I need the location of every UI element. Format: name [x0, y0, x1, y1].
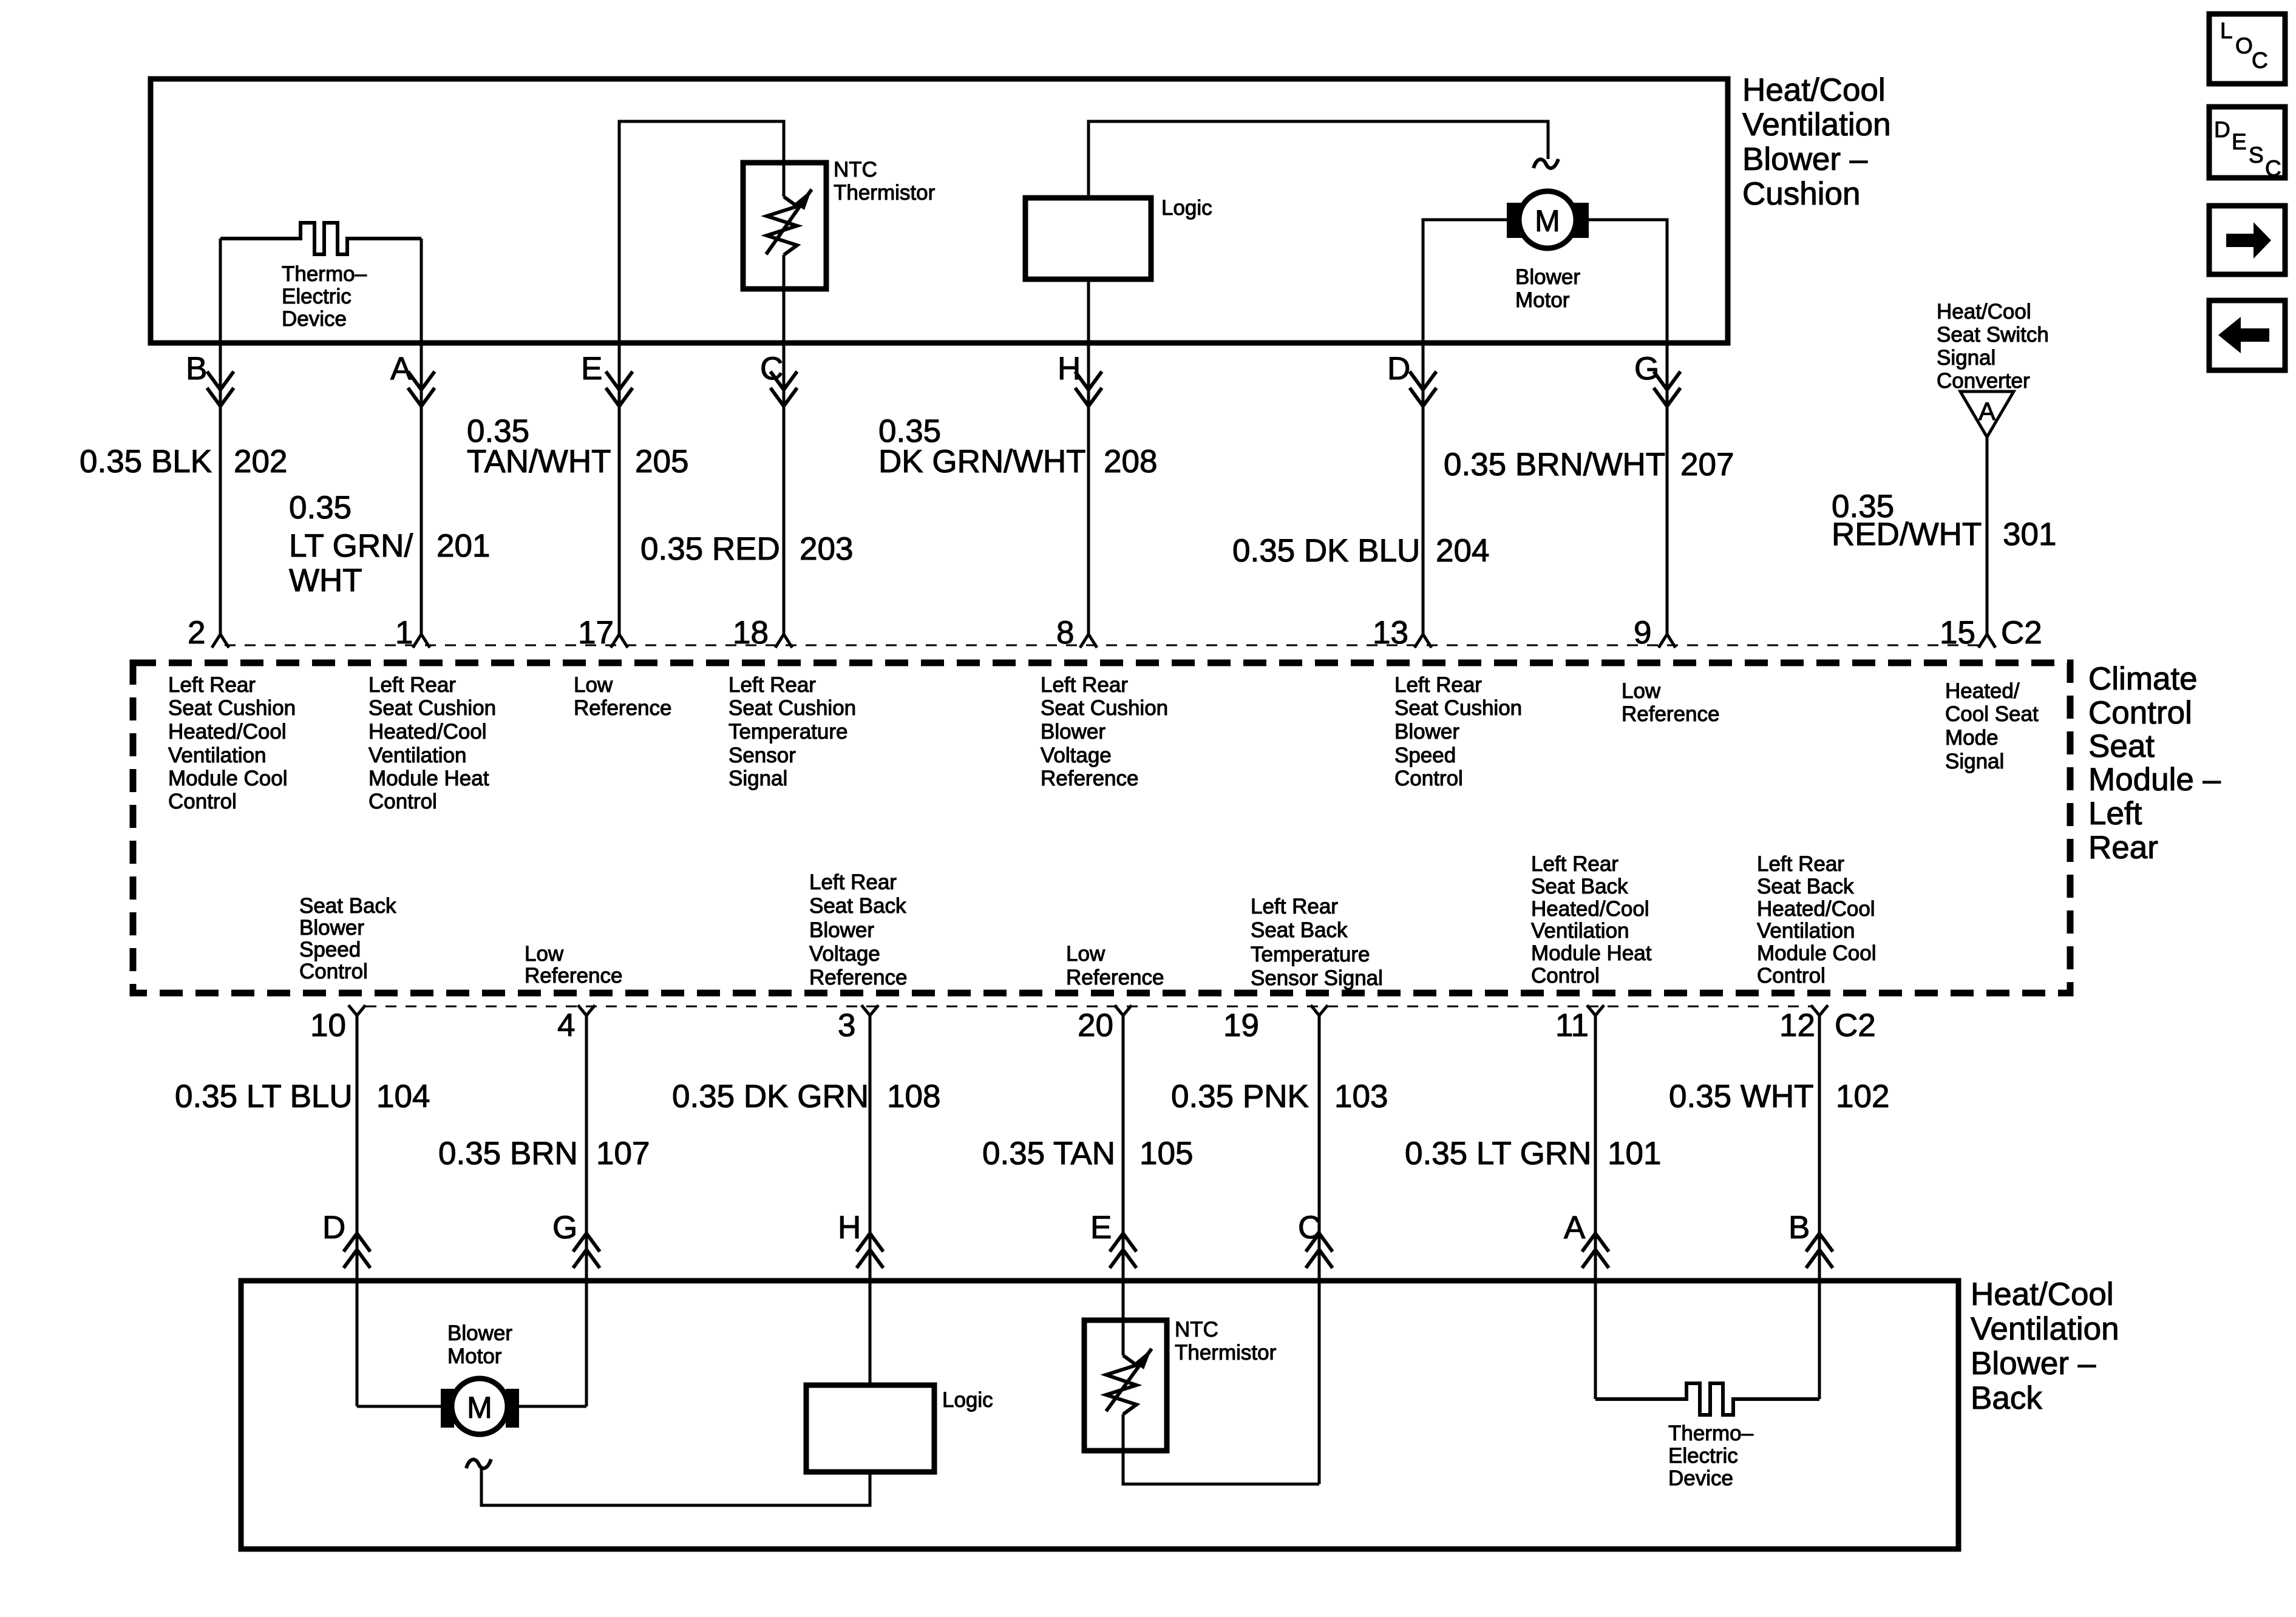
- svg-text:C: C: [1298, 1210, 1321, 1246]
- svg-text:G: G: [552, 1210, 577, 1246]
- svg-text:203: 203: [800, 531, 853, 567]
- svg-text:20: 20: [1078, 1008, 1113, 1043]
- wire 108 (pin 3 to H): [869, 1015, 872, 1385]
- svg-text:A: A: [1978, 397, 1995, 425]
- svg-text:D: D: [2214, 117, 2230, 142]
- logic module (back) box: [806, 1385, 934, 1472]
- arrow chevrons on wire D: [1410, 371, 1436, 390]
- svg-text:NTC: NTC: [1175, 1318, 1218, 1341]
- svg-text:D: D: [322, 1210, 345, 1246]
- svg-text:Ventilation: Ventilation: [168, 744, 267, 767]
- svg-text:Signal: Signal: [1945, 750, 2004, 773]
- wire E lead / low reference run to NTC thermistor: [619, 121, 784, 634]
- svg-text:10: 10: [310, 1008, 346, 1043]
- svg-text:Thermistor: Thermistor: [1175, 1341, 1277, 1364]
- svg-text:Thermo–: Thermo–: [1668, 1422, 1754, 1445]
- wire H lead from logic (208): [1087, 279, 1090, 634]
- svg-text:Low: Low: [1622, 679, 1661, 703]
- svg-text:Signal: Signal: [729, 767, 787, 790]
- svg-text:Control: Control: [2088, 695, 2192, 731]
- svg-text:108: 108: [887, 1079, 940, 1114]
- svg-text:Heated/Cool: Heated/Cool: [1531, 897, 1649, 921]
- svg-text:Device: Device: [1668, 1466, 1733, 1490]
- svg-text:Electric: Electric: [282, 285, 352, 308]
- svg-text:DK GRN/WHT: DK GRN/WHT: [878, 444, 1086, 480]
- svg-text:Motor: Motor: [1515, 288, 1570, 312]
- svg-text:Ventilation: Ventilation: [1742, 107, 1891, 143]
- svg-text:Module Heat: Module Heat: [1531, 941, 1652, 965]
- svg-text:Blower: Blower: [1041, 720, 1106, 744]
- svg-text:Signal: Signal: [1937, 346, 1995, 370]
- svg-text:E: E: [1090, 1210, 1112, 1246]
- svg-text:Sensor: Sensor: [729, 744, 796, 767]
- svg-text:Converter: Converter: [1937, 369, 2030, 393]
- arrow chevrons on wire H: [1075, 371, 1102, 390]
- wire B lead inside box (202): [219, 239, 222, 634]
- svg-text:Back: Back: [1971, 1380, 2042, 1416]
- svg-text:E: E: [2232, 129, 2247, 154]
- arrow chevrons on wire B (bottom): [1806, 1233, 1833, 1252]
- svg-text:Heat/Cool: Heat/Cool: [1937, 300, 2031, 324]
- svg-text:Ventilation: Ventilation: [1531, 919, 1629, 943]
- svg-text:0.35 LT GRN: 0.35 LT GRN: [1405, 1136, 1591, 1171]
- svg-text:Reference: Reference: [525, 964, 622, 988]
- svg-text:RED/WHT: RED/WHT: [1832, 517, 1982, 552]
- NTC thermistor (back) element: [1106, 1355, 1136, 1414]
- svg-text:Temperature: Temperature: [1251, 943, 1370, 966]
- svg-text:Heat/Cool: Heat/Cool: [1742, 72, 1886, 108]
- svg-text:Seat Back: Seat Back: [1757, 875, 1854, 898]
- svg-text:Reference: Reference: [1622, 702, 1719, 726]
- svg-text:Blower: Blower: [299, 916, 364, 940]
- wire motor right lead (back): [519, 1405, 586, 1408]
- svg-text:207: 207: [1680, 447, 1734, 483]
- svg-text:Blower: Blower: [1515, 265, 1580, 289]
- svg-text:Left Rear: Left Rear: [1041, 673, 1128, 697]
- svg-text:Left: Left: [2088, 796, 2142, 832]
- svg-text:H: H: [1058, 351, 1081, 387]
- NTC thermistor (cushion) box: [743, 163, 826, 289]
- svg-text:2: 2: [188, 615, 205, 651]
- svg-text:Blower: Blower: [447, 1321, 512, 1345]
- svg-text:Speed: Speed: [299, 938, 361, 961]
- svg-text:105: 105: [1140, 1136, 1193, 1171]
- svg-text:Heated/Cool: Heated/Cool: [369, 720, 487, 744]
- wire motor left lead to D (204): [1423, 220, 1507, 634]
- svg-text:Control: Control: [1394, 767, 1463, 790]
- svg-text:Logic: Logic: [942, 1388, 993, 1412]
- top enclosure box: Heat/Cool Ventilation Blower - Cushion: [151, 79, 1728, 343]
- svg-text:Rear: Rear: [2088, 830, 2158, 866]
- svg-text:201: 201: [436, 528, 490, 564]
- signal converter triangle symbol: [1960, 392, 2014, 437]
- wire A lead inside box (201): [420, 239, 423, 634]
- bottom enclosure box: Heat/Cool Ventilation Blower - Back: [241, 1281, 1958, 1549]
- arrow chevrons on wire G: [1654, 371, 1680, 390]
- LOC navigation icon box: [2209, 14, 2285, 84]
- svg-text:Electric: Electric: [1668, 1444, 1738, 1468]
- svg-text:103: 103: [1334, 1079, 1388, 1114]
- svg-text:C: C: [2265, 156, 2281, 181]
- left arrow glyph: [2218, 317, 2269, 353]
- NTC thermistor (back) box: [1084, 1320, 1167, 1451]
- svg-text:B: B: [186, 351, 207, 387]
- thin connector dashed line (bottom): [365, 1006, 1812, 1008]
- DESC navigation icon box: [2209, 107, 2285, 178]
- svg-text:Ventilation: Ventilation: [369, 744, 467, 767]
- svg-text:11: 11: [1555, 1008, 1589, 1043]
- thermo-electric device (cushion): [220, 223, 421, 254]
- svg-text:Seat Cushion: Seat Cushion: [168, 696, 296, 720]
- svg-text:Low: Low: [574, 673, 613, 697]
- svg-text:Cool Seat: Cool Seat: [1945, 702, 2039, 726]
- svg-text:Control: Control: [1531, 964, 1600, 988]
- svg-text:Seat Cushion: Seat Cushion: [369, 696, 496, 720]
- blower motor (cushion) circle: [1519, 191, 1576, 248]
- arrow chevrons on wire D (bottom): [344, 1233, 370, 1252]
- svg-text:19: 19: [1223, 1008, 1259, 1043]
- svg-text:Heat/Cool: Heat/Cool: [1971, 1276, 2114, 1312]
- blower motor (back) brushes: [441, 1389, 454, 1428]
- svg-text:Thermistor: Thermistor: [834, 181, 936, 205]
- svg-text:H: H: [838, 1210, 861, 1246]
- svg-text:WHT: WHT: [289, 563, 362, 598]
- svg-text:0.35 WHT: 0.35 WHT: [1669, 1079, 1814, 1114]
- svg-text:Heated/Cool: Heated/Cool: [168, 720, 287, 744]
- svg-text:Reference: Reference: [809, 966, 907, 989]
- svg-text:Heated/: Heated/: [1945, 679, 2020, 703]
- svg-text:102: 102: [1836, 1079, 1889, 1114]
- svg-text:Seat Back: Seat Back: [1531, 875, 1628, 898]
- svg-text:A: A: [1564, 1210, 1586, 1246]
- svg-text:Mode: Mode: [1945, 726, 1999, 750]
- right arrow navigation icon box: [2209, 206, 2285, 274]
- left arrow navigation icon box: [2209, 300, 2285, 370]
- svg-text:Control: Control: [168, 790, 237, 813]
- svg-text:Motor: Motor: [447, 1344, 502, 1368]
- arrow chevrons on wire E: [606, 371, 633, 390]
- svg-text:TAN/WHT: TAN/WHT: [467, 444, 611, 480]
- blower motor (back) circle: [452, 1378, 508, 1434]
- svg-text:Module Heat: Module Heat: [369, 767, 489, 790]
- svg-text:Left Rear: Left Rear: [1394, 673, 1482, 697]
- svg-text:Reference: Reference: [1041, 767, 1138, 790]
- svg-text:Speed: Speed: [1394, 744, 1456, 767]
- svg-text:202: 202: [234, 444, 287, 480]
- svg-text:G: G: [1634, 351, 1659, 387]
- blower motor (cushion) brushes: [1507, 203, 1527, 238]
- arrow chevrons on wire C: [770, 371, 797, 390]
- svg-text:Module Cool: Module Cool: [168, 767, 288, 790]
- wire 101 (pin 11 to A): [1594, 1015, 1597, 1399]
- thermo-electric device (back): [1595, 1383, 1819, 1415]
- svg-text:Seat Cushion: Seat Cushion: [1041, 696, 1168, 720]
- svg-text:Ventilation: Ventilation: [1757, 919, 1855, 943]
- svg-text:L: L: [2220, 18, 2233, 43]
- svg-text:Blower –: Blower –: [1971, 1346, 2096, 1381]
- svg-text:Blower: Blower: [809, 918, 874, 942]
- svg-text:Temperature: Temperature: [729, 720, 847, 744]
- wire motor right lead to G (207): [1589, 220, 1667, 634]
- svg-text:0.35 LT BLU: 0.35 LT BLU: [175, 1079, 353, 1114]
- svg-text:101: 101: [1608, 1136, 1661, 1171]
- tilde loose end above cushion blower motor: [1533, 159, 1558, 168]
- arrow chevrons on wire B: [207, 371, 234, 390]
- svg-text:Module –: Module –: [2088, 762, 2221, 798]
- Climate Control Seat Module - Left Rear dashed box: [133, 663, 2070, 993]
- svg-text:Cushion: Cushion: [1742, 176, 1860, 212]
- wire 301 from signal converter: [1986, 437, 1989, 634]
- svg-text:Left Rear: Left Rear: [369, 673, 456, 697]
- svg-text:E: E: [581, 351, 602, 387]
- svg-text:Left Rear: Left Rear: [1251, 895, 1338, 918]
- arrow chevrons on wire A (bottom): [1582, 1233, 1609, 1252]
- svg-text:0.35 PNK: 0.35 PNK: [1171, 1079, 1309, 1114]
- wire motor left lead (back): [357, 1405, 441, 1408]
- svg-text:Seat Back: Seat Back: [1251, 918, 1348, 942]
- NTC thermistor (cushion) element: [767, 197, 797, 255]
- svg-text:Seat Back: Seat Back: [809, 894, 906, 918]
- wire 107 (pin 4 to G): [585, 1015, 588, 1406]
- wire C lead from thermistor (203): [783, 255, 786, 634]
- svg-text:3: 3: [838, 1008, 855, 1043]
- svg-text:M: M: [467, 1391, 492, 1425]
- svg-text:Ventilation: Ventilation: [1971, 1311, 2119, 1347]
- svg-text:Left Rear: Left Rear: [1531, 852, 1618, 876]
- arrow chevrons on wire A: [408, 371, 435, 390]
- wire 102 (pin 12 to B): [1818, 1015, 1821, 1399]
- arrow chevrons on wire C (bottom): [1306, 1233, 1333, 1252]
- svg-text:0.35 RED: 0.35 RED: [640, 531, 780, 567]
- wire from motor tilde to logic (back): [481, 1466, 870, 1505]
- svg-text:Low: Low: [1066, 942, 1106, 966]
- arrow chevrons on wire H (bottom): [857, 1233, 883, 1252]
- svg-text:0.35 BLK: 0.35 BLK: [80, 444, 212, 480]
- arrow chevrons on wire G (bottom): [573, 1233, 600, 1252]
- svg-text:Thermo–: Thermo–: [282, 262, 367, 286]
- svg-text:C2: C2: [1835, 1008, 1876, 1043]
- svg-text:Reference: Reference: [574, 696, 671, 720]
- svg-text:104: 104: [376, 1079, 430, 1114]
- svg-text:Seat Cushion: Seat Cushion: [1394, 696, 1522, 720]
- svg-text:12: 12: [1779, 1008, 1815, 1043]
- svg-text:Sensor Signal: Sensor Signal: [1251, 966, 1383, 990]
- svg-text:0.35 DK GRN: 0.35 DK GRN: [672, 1079, 869, 1114]
- tilde loose end below back blower motor: [466, 1459, 491, 1468]
- svg-text:0.35 DK BLU: 0.35 DK BLU: [1232, 533, 1420, 569]
- svg-text:Seat Cushion: Seat Cushion: [729, 696, 856, 720]
- svg-text:C: C: [2252, 48, 2268, 73]
- svg-text:Blower –: Blower –: [1742, 141, 1868, 177]
- svg-text:Control: Control: [299, 960, 368, 983]
- svg-text:Voltage: Voltage: [1041, 744, 1112, 767]
- svg-text:205: 205: [635, 444, 688, 480]
- svg-text:Logic: Logic: [1161, 196, 1212, 220]
- arrow chevrons on wire E (bottom): [1110, 1233, 1136, 1252]
- svg-text:Left Rear: Left Rear: [168, 673, 256, 697]
- right arrow glyph: [2226, 222, 2271, 259]
- svg-text:204: 204: [1436, 533, 1489, 569]
- svg-text:0.35 BRN/WHT: 0.35 BRN/WHT: [1444, 447, 1665, 483]
- svg-text:Voltage: Voltage: [809, 942, 880, 966]
- svg-text:Low: Low: [525, 942, 564, 966]
- svg-text:Module Cool: Module Cool: [1757, 941, 1877, 965]
- logic module (cushion) box: [1025, 198, 1151, 279]
- svg-text:Blower: Blower: [1394, 720, 1459, 744]
- svg-text:D: D: [1387, 351, 1410, 387]
- svg-text:208: 208: [1104, 444, 1157, 480]
- svg-text:0.35 BRN: 0.35 BRN: [438, 1136, 578, 1171]
- svg-text:B: B: [1788, 1210, 1810, 1246]
- svg-text:Reference: Reference: [1066, 966, 1164, 989]
- wire 105 (pin 20 to E): [1122, 1015, 1125, 1355]
- svg-text:Climate: Climate: [2088, 661, 2198, 697]
- svg-text:Seat Switch: Seat Switch: [1937, 323, 2049, 347]
- svg-text:C2: C2: [2001, 615, 2042, 651]
- wire 104 (pin 10 to D): [356, 1015, 359, 1406]
- svg-text:107: 107: [596, 1136, 650, 1171]
- thin connector dashed line (top): [225, 645, 1980, 646]
- svg-text:M: M: [1535, 204, 1560, 238]
- svg-text:301: 301: [2003, 517, 2056, 552]
- svg-text:0.35 TAN: 0.35 TAN: [982, 1136, 1115, 1171]
- svg-text:Left Rear: Left Rear: [1757, 852, 1844, 876]
- svg-text:Left Rear: Left Rear: [729, 673, 816, 697]
- svg-text:Control: Control: [1757, 964, 1826, 988]
- svg-text:Heated/Cool: Heated/Cool: [1757, 897, 1875, 921]
- svg-text:S: S: [2249, 143, 2264, 168]
- svg-text:Left Rear: Left Rear: [809, 870, 897, 894]
- svg-text:A: A: [390, 351, 412, 387]
- svg-text:0.35: 0.35: [289, 490, 352, 526]
- svg-text:Device: Device: [282, 307, 347, 331]
- svg-text:Seat: Seat: [2088, 728, 2155, 764]
- svg-text:LT GRN/: LT GRN/: [289, 528, 413, 564]
- wire from logic to blower motor supply with loose-end tilde: [1089, 121, 1548, 198]
- wire 103 (pin 19 to C): [1318, 1015, 1321, 1484]
- svg-text:Control: Control: [369, 790, 437, 813]
- svg-text:NTC: NTC: [834, 158, 877, 181]
- svg-text:4: 4: [557, 1008, 575, 1043]
- svg-text:Seat Back: Seat Back: [299, 894, 396, 918]
- wire thermistor bottom to C (back): [1123, 1414, 1319, 1484]
- svg-text:O: O: [2235, 33, 2253, 58]
